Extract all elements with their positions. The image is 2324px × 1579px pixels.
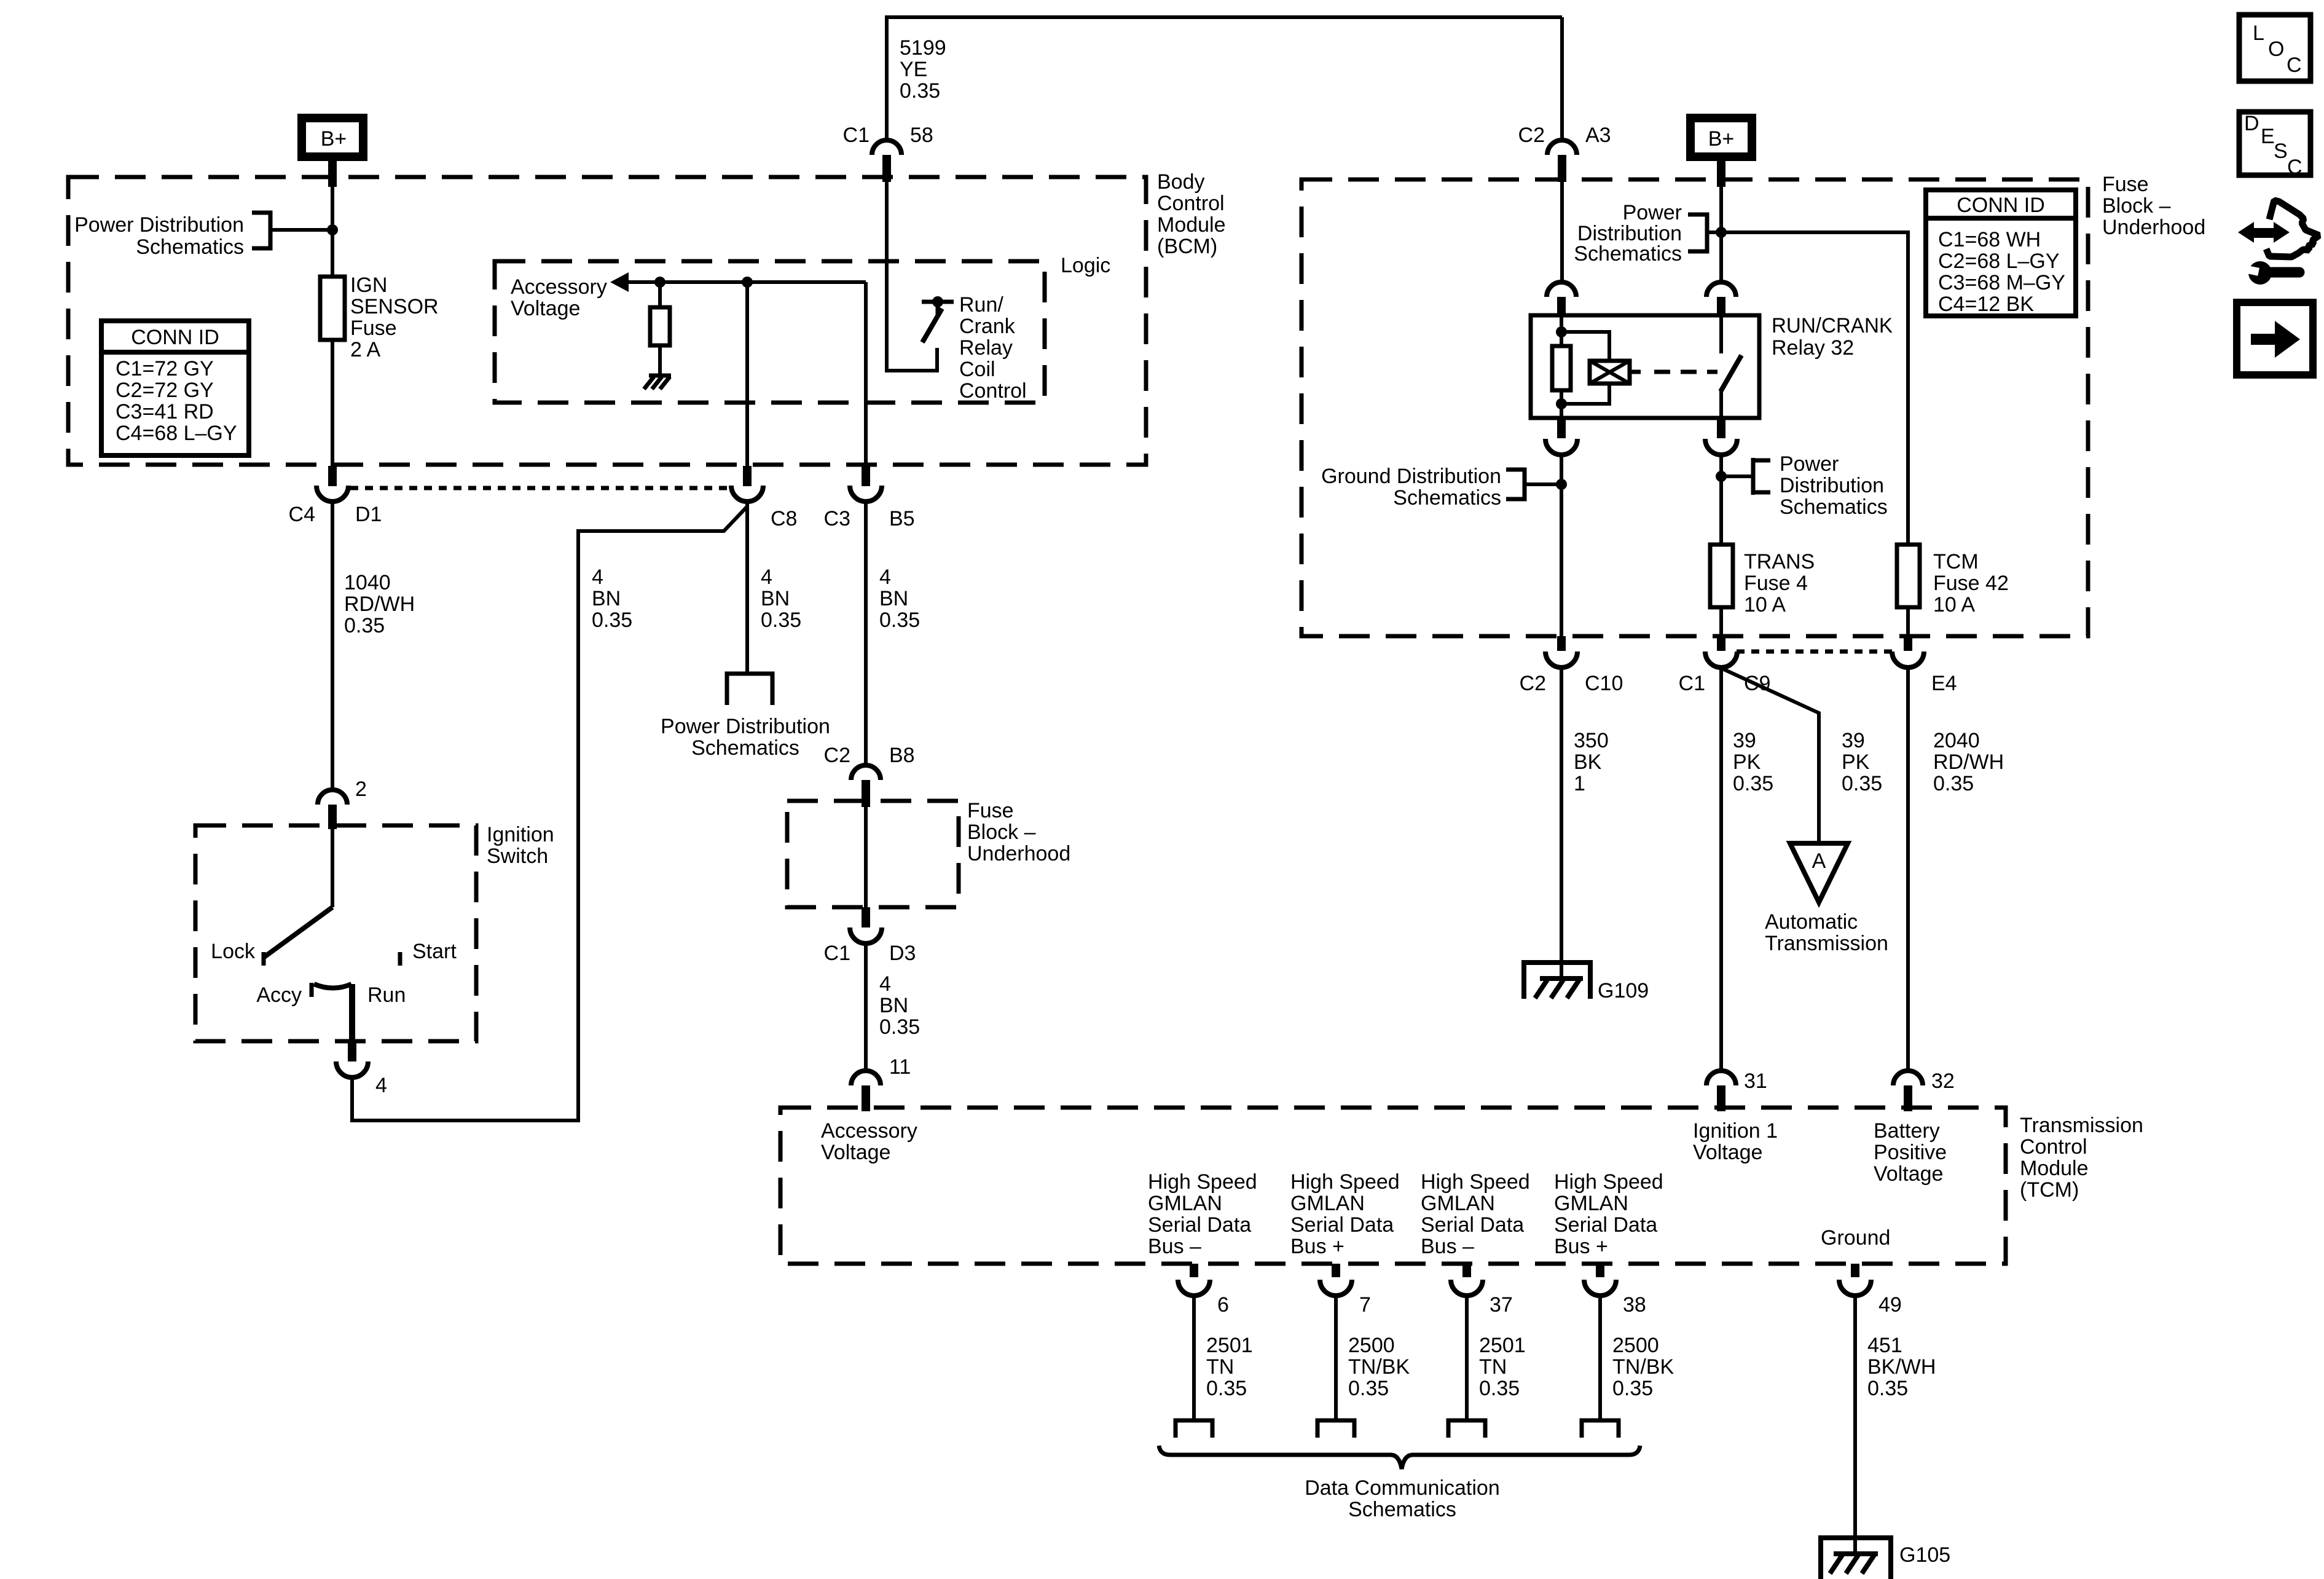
svg-text:10 A: 10 A	[1744, 593, 1786, 616]
svg-text:Power: Power	[1780, 452, 1839, 476]
terminal stub bus wire 6	[1176, 1420, 1212, 1438]
svg-text:O: O	[2268, 37, 2284, 61]
relay dashed actuation link	[1654, 370, 1717, 374]
connector C1/C9 at fuse block bottom	[1705, 636, 1737, 667]
svg-text:C8: C8	[771, 507, 797, 530]
svg-text:32: 32	[1931, 1069, 1955, 1093]
svg-text:C2=72 GY: C2=72 GY	[116, 379, 214, 402]
connector relay left top	[1547, 282, 1576, 317]
svg-text:BN: BN	[879, 994, 908, 1017]
relay resistor symbol	[1552, 346, 1571, 390]
wire resistor to ground	[658, 345, 662, 376]
terminal stub bus wire 37	[1448, 1420, 1485, 1438]
svg-text:Fuse: Fuse	[350, 317, 397, 340]
svg-text:Schematics: Schematics	[691, 736, 799, 760]
svg-text:B8: B8	[889, 744, 915, 767]
svg-text:(TCM): (TCM)	[2020, 1178, 2079, 1202]
CONN ID table (left, BCM)	[101, 321, 249, 455]
svg-text:C1: C1	[843, 124, 870, 147]
svg-text:4: 4	[761, 565, 772, 589]
svg-text:Automatic: Automatic	[1765, 910, 1858, 934]
svg-text:Relay 32: Relay 32	[1772, 336, 1854, 360]
wire 2040 RD/WH from E4 to TCM pin 32	[1906, 667, 1910, 1071]
svg-text:L: L	[2253, 22, 2264, 45]
wire from ignition pin 4 to BCM accessory line	[352, 506, 747, 1120]
svg-text:Accy: Accy	[256, 983, 302, 1007]
svg-text:0.35: 0.35	[1348, 1377, 1389, 1400]
svg-text:Switch: Switch	[487, 845, 548, 868]
svg-text:39: 39	[1733, 729, 1756, 752]
B+ power symbol box (left)	[302, 118, 363, 157]
arrowhead accessory voltage	[610, 272, 629, 292]
bracket for Power Distribution Schematics (lower right)	[1753, 458, 1770, 495]
svg-text:1: 1	[1574, 772, 1585, 795]
ignition switch dashed outline	[195, 825, 476, 1041]
connector-face dotted line C4 to C8	[350, 486, 732, 490]
wire 2500 TN/BK bus + (pin 38)	[1598, 1296, 1602, 1420]
svg-text:Start: Start	[412, 940, 457, 963]
brace data communication schematics	[1159, 1446, 1640, 1469]
svg-text:Serial Data: Serial Data	[1554, 1213, 1657, 1237]
wire 39 PK branch diagonal to automatic transmission	[1722, 669, 1819, 843]
wire 5199 YE top horizontal from BCM C1 to fuse block C2	[887, 15, 1562, 19]
TCM fuse 42 symbol	[1897, 545, 1920, 607]
svg-text:Fuse: Fuse	[2102, 173, 2149, 196]
svg-text:1040: 1040	[344, 571, 391, 594]
wire TRANS fuse to fuse block edge	[1719, 607, 1723, 637]
connector-face dotted line C9 to E4	[1737, 650, 1892, 654]
wire 350 BK from C10 to G109	[1560, 667, 1563, 977]
svg-text:0.35: 0.35	[1842, 772, 1882, 795]
svg-text:Bus –: Bus –	[1421, 1235, 1474, 1258]
node junction dot power distribution (lower right)	[1716, 471, 1727, 482]
svg-text:C2: C2	[1520, 672, 1546, 695]
connector C3/B5 at BCM bottom	[850, 466, 882, 502]
svg-text:Serial Data: Serial Data	[1148, 1213, 1251, 1237]
contact arc Accy to Run	[314, 984, 351, 988]
node junction dot relay coil bottom	[1556, 398, 1567, 409]
svg-text:Fuse 4: Fuse 4	[1744, 572, 1808, 595]
svg-text:Ground: Ground	[1821, 1226, 1890, 1250]
svg-text:Control: Control	[959, 379, 1027, 403]
relay coil parallel branch wire	[1561, 332, 1609, 404]
svg-text:GMLAN: GMLAN	[1421, 1192, 1495, 1215]
switch blade run/crank driver	[922, 309, 942, 342]
wire junction to TCM fuse leg horizontal	[1721, 232, 1908, 545]
bracket for Ground Distribution Schematics label	[1506, 470, 1525, 499]
wire B+ (right) down through fuse block	[1719, 160, 1723, 282]
svg-text:C9: C9	[1744, 672, 1770, 695]
wire BCM run/crank driver L-shape from pin 58	[887, 182, 937, 371]
svg-text:D: D	[2244, 112, 2259, 135]
wire through middle fuse block	[864, 806, 868, 907]
connector C1/58 at BCM top	[872, 140, 901, 182]
svg-text:Ground Distribution: Ground Distribution	[1321, 465, 1501, 488]
svg-text:Block –: Block –	[2102, 194, 2171, 218]
svg-text:Serial Data: Serial Data	[1421, 1213, 1524, 1237]
connector 4 at ignition switch bottom	[336, 1041, 368, 1077]
svg-text:B5: B5	[889, 507, 915, 530]
svg-text:BK/WH: BK/WH	[1867, 1355, 1936, 1379]
svg-text:2500: 2500	[1612, 1334, 1659, 1357]
ground chassis symbol in logic box	[644, 376, 671, 389]
svg-text:E: E	[2261, 125, 2275, 148]
svg-text:0.35: 0.35	[879, 1015, 920, 1039]
svg-text:B+: B+	[1708, 127, 1735, 151]
svg-text:A: A	[1812, 849, 1826, 873]
svg-text:0.35: 0.35	[1479, 1377, 1520, 1400]
svg-text:Voltage: Voltage	[1874, 1162, 1943, 1186]
svg-text:0.35: 0.35	[344, 614, 385, 637]
svg-text:C1=72 GY: C1=72 GY	[116, 357, 214, 380]
connector relay right top	[1706, 282, 1736, 317]
svg-text:0.35: 0.35	[1612, 1377, 1653, 1400]
contact bar run/crank coil control	[922, 300, 954, 304]
wire C2/A3 down to relay left connector	[1560, 182, 1564, 282]
wire junction to bracket (lower right)	[1721, 474, 1753, 478]
svg-text:38: 38	[1623, 1293, 1646, 1317]
svg-text:Ignition 1: Ignition 1	[1693, 1119, 1778, 1143]
svg-text:BN: BN	[592, 587, 621, 610]
svg-text:A3: A3	[1585, 124, 1611, 147]
svg-text:GMLAN: GMLAN	[1290, 1192, 1365, 1215]
svg-text:C2: C2	[1518, 124, 1545, 147]
svg-text:C3: C3	[824, 507, 850, 530]
svg-text:Logic: Logic	[1061, 254, 1110, 277]
svg-text:Control: Control	[1157, 192, 1225, 215]
connector C8 at BCM bottom	[731, 466, 763, 502]
svg-text:4: 4	[879, 972, 891, 996]
resistor in logic box	[650, 307, 670, 345]
wire B+ (left) down to BCM	[331, 160, 334, 466]
svg-text:5199: 5199	[900, 36, 946, 60]
ground symbol G105	[1821, 1538, 1891, 1579]
CONN ID table (right, fuse block)	[1926, 190, 2076, 316]
svg-text:RUN/CRANK: RUN/CRANK	[1772, 314, 1893, 337]
svg-text:Transmission: Transmission	[1765, 932, 1888, 955]
icon car with double arrow and wrench	[2238, 200, 2319, 285]
svg-text:58: 58	[910, 124, 933, 147]
svg-text:E4: E4	[1931, 672, 1957, 695]
svg-text:0.35: 0.35	[1933, 772, 1974, 795]
svg-text:Schematics: Schematics	[1574, 242, 1682, 266]
svg-text:Coil: Coil	[959, 358, 995, 381]
connector C2/C10 at fuse block bottom	[1545, 636, 1577, 667]
connector 11 at TCM top	[851, 1071, 881, 1111]
icon DESC box	[2239, 112, 2310, 179]
wire vertical into fuse block A3	[1560, 17, 1564, 140]
svg-text:G105: G105	[1899, 1543, 1950, 1567]
svg-text:C4=68 L–GY: C4=68 L–GY	[116, 422, 237, 445]
svg-text:451: 451	[1867, 1334, 1902, 1357]
node junction dot relay coil top	[1556, 326, 1567, 337]
ground symbol G109	[1524, 963, 1590, 999]
svg-text:SENSOR: SENSOR	[350, 295, 439, 318]
stub B+ left entry	[328, 161, 337, 187]
svg-text:Ignition: Ignition	[487, 823, 554, 846]
svg-text:Crank: Crank	[959, 315, 1016, 338]
svg-text:Distribution: Distribution	[1780, 474, 1884, 497]
svg-text:Body: Body	[1157, 170, 1205, 194]
terminal stub bus wire 38	[1582, 1420, 1619, 1438]
svg-text:C1: C1	[1679, 672, 1705, 695]
svg-text:(BCM): (BCM)	[1157, 235, 1217, 258]
svg-text:0.35: 0.35	[761, 608, 801, 632]
svg-text:Fuse: Fuse	[967, 799, 1014, 822]
svg-text:B+: B+	[321, 127, 347, 151]
svg-text:0.35: 0.35	[1733, 772, 1773, 795]
svg-text:C2: C2	[824, 744, 850, 767]
svg-text:6: 6	[1217, 1293, 1229, 1317]
svg-text:PK: PK	[1842, 750, 1870, 774]
connector E4 at fuse block bottom	[1892, 636, 1924, 667]
contact tick Accy	[310, 983, 314, 997]
relay left leg internal wire	[1560, 315, 1563, 418]
svg-text:Voltage: Voltage	[511, 297, 580, 320]
wire resistor branch upper	[658, 282, 662, 307]
relay coil stub to dashed link	[1630, 370, 1641, 374]
node junction dot resistor tap	[654, 277, 665, 288]
svg-text:S: S	[2274, 140, 2288, 163]
svg-text:RD/WH: RD/WH	[344, 593, 415, 616]
wire vertical into BCM pin 58	[885, 15, 889, 140]
wire B5 feed down from accessory line	[864, 282, 868, 466]
svg-text:C: C	[2287, 156, 2302, 179]
contact stub below dot	[936, 302, 940, 316]
node junction dot ground distribution	[1556, 479, 1567, 490]
svg-text:Power: Power	[1623, 201, 1682, 224]
svg-text:D1: D1	[355, 503, 382, 526]
connector C2/B8 at middle fuse block top	[851, 765, 881, 807]
svg-text:4: 4	[879, 565, 891, 589]
svg-text:Lock: Lock	[211, 940, 256, 963]
svg-text:7: 7	[1359, 1293, 1371, 1317]
wire branch to power distribution bracket (left)	[270, 228, 332, 232]
connector 32 at TCM top	[1893, 1071, 1923, 1111]
svg-text:4: 4	[592, 565, 603, 589]
svg-text:10 A: 10 A	[1933, 593, 1975, 616]
svg-text:BK: BK	[1574, 750, 1602, 774]
svg-text:C3=68 M–GY: C3=68 M–GY	[1938, 271, 2065, 294]
wire inside ignition switch from pin 2	[331, 823, 334, 907]
logic sub-box dashed outline inside BCM	[495, 261, 1045, 403]
wire Run contact down to pin 4	[349, 984, 355, 1042]
svg-text:Relay: Relay	[959, 336, 1013, 360]
module box TCM (Transmission Control Module) dashed outline	[780, 1108, 2006, 1264]
relay switch lower wire	[1719, 390, 1723, 418]
svg-text:Positive: Positive	[1874, 1141, 1947, 1164]
bracket for Power Distribution Schematics (top right)	[1688, 215, 1707, 251]
svg-text:C2=68 L–GY: C2=68 L–GY	[1938, 250, 2060, 273]
svg-text:Accessory: Accessory	[511, 275, 607, 299]
svg-text:Bus +: Bus +	[1554, 1235, 1608, 1258]
svg-text:TN/BK: TN/BK	[1612, 1355, 1674, 1379]
svg-text:C4: C4	[289, 503, 315, 526]
wire 1040 RD/WH ignition switch feed	[331, 502, 334, 790]
fuse block underhood (middle small) dashed outline	[787, 801, 959, 907]
relay RUN/CRANK 32 outline box	[1531, 315, 1759, 418]
svg-text:2500: 2500	[1348, 1334, 1395, 1357]
svg-text:Accessory: Accessory	[821, 1119, 917, 1143]
stub B+ right entry	[1717, 161, 1725, 187]
wire B5 from BCM to fuse block B8	[864, 502, 868, 763]
TRANS fuse 4 symbol	[1710, 545, 1733, 607]
svg-text:Voltage: Voltage	[821, 1141, 890, 1164]
svg-text:C4=12 BK: C4=12 BK	[1938, 293, 2034, 316]
svg-text:2501: 2501	[1206, 1334, 1253, 1357]
svg-text:Power Distribution: Power Distribution	[661, 715, 830, 738]
svg-text:Run/: Run/	[959, 293, 1003, 317]
contact tick Start	[398, 952, 402, 966]
node junction dot on B+ wire (left)	[327, 224, 338, 235]
contact dot run/crank coil control	[932, 296, 943, 307]
svg-text:TCM: TCM	[1933, 550, 1979, 573]
wire 451 BK/WH ground (pin 49)	[1853, 1296, 1857, 1554]
icon next-page arrow box	[2237, 302, 2313, 375]
contact tick Lock	[262, 952, 266, 966]
svg-text:High Speed: High Speed	[1421, 1170, 1530, 1194]
svg-text:TN: TN	[1479, 1355, 1507, 1379]
svg-text:Block –: Block –	[967, 821, 1036, 844]
connector 37 at TCM bottom	[1451, 1264, 1483, 1296]
svg-text:49: 49	[1878, 1293, 1902, 1317]
svg-text:2040: 2040	[1933, 729, 1980, 752]
relay switch blade	[1721, 355, 1741, 392]
svg-text:Schematics: Schematics	[136, 235, 244, 259]
IGN SENSOR fuse symbol	[320, 277, 345, 340]
node junction dot B+ right distribution	[1716, 227, 1727, 238]
svg-text:0.35: 0.35	[592, 608, 632, 632]
svg-text:39: 39	[1842, 729, 1865, 752]
svg-text:Schematics: Schematics	[1393, 486, 1501, 510]
svg-text:C1: C1	[824, 942, 850, 965]
B+ power symbol box (right)	[1690, 118, 1752, 157]
svg-text:GMLAN: GMLAN	[1554, 1192, 1628, 1215]
svg-text:0.35: 0.35	[900, 79, 940, 103]
svg-text:D3: D3	[889, 942, 916, 965]
connector 6 at TCM bottom	[1178, 1264, 1210, 1296]
svg-text:0.35: 0.35	[1206, 1377, 1247, 1400]
svg-text:2501: 2501	[1479, 1334, 1526, 1357]
svg-text:Bus +: Bus +	[1290, 1235, 1345, 1258]
wire 2500 TN/BK bus + (pin 7)	[1334, 1296, 1338, 1420]
svg-text:CONN ID: CONN ID	[131, 326, 219, 349]
wire accessory voltage line in logic box	[621, 280, 866, 284]
connector C4/D1 at BCM bottom	[316, 466, 348, 502]
wire relay right output down	[1719, 455, 1723, 545]
svg-text:GMLAN: GMLAN	[1148, 1192, 1222, 1215]
connector relay right bottom	[1705, 418, 1737, 455]
svg-text:C: C	[2287, 53, 2302, 77]
svg-text:31: 31	[1744, 1069, 1767, 1093]
svg-text:IGN: IGN	[350, 274, 387, 297]
connector 2 at ignition switch top	[318, 790, 347, 829]
wire 2501 TN bus - (pin 37)	[1465, 1296, 1469, 1420]
wire 39 PK from C9 to TCM pin 31	[1719, 667, 1723, 1071]
relay switch upper wire	[1719, 315, 1723, 353]
svg-text:Module: Module	[2020, 1157, 2089, 1180]
svg-text:Transmission: Transmission	[2020, 1114, 2143, 1137]
connector 49 at TCM bottom	[1839, 1264, 1871, 1296]
svg-text:C10: C10	[1585, 672, 1623, 695]
svg-text:0.35: 0.35	[1867, 1377, 1908, 1400]
wire 4 BN from D3 to TCM pin 11	[864, 945, 868, 1071]
icon LOC box	[2239, 15, 2310, 81]
svg-text:37: 37	[1490, 1293, 1513, 1317]
terminal stub bus wire 7	[1317, 1420, 1354, 1438]
svg-text:Bus –: Bus –	[1148, 1235, 1201, 1258]
svg-text:Schematics: Schematics	[1348, 1498, 1456, 1521]
svg-text:BN: BN	[761, 587, 790, 610]
svg-text:YE: YE	[900, 58, 927, 81]
connector relay left bottom	[1545, 418, 1577, 455]
svg-text:Battery: Battery	[1874, 1119, 1940, 1143]
svg-text:TN: TN	[1206, 1355, 1234, 1379]
wire bracket to junction (ground distribution)	[1525, 482, 1561, 486]
svg-text:Fuse 42: Fuse 42	[1933, 572, 2009, 595]
svg-text:Data Communication: Data Communication	[1305, 1476, 1499, 1500]
svg-text:TN/BK: TN/BK	[1348, 1355, 1410, 1379]
fuse block underhood (right) dashed outline	[1301, 179, 2088, 636]
svg-text:G109: G109	[1598, 979, 1649, 1002]
svg-text:Power Distribution: Power Distribution	[74, 213, 244, 237]
svg-text:0.35: 0.35	[879, 608, 920, 632]
wire C8 down to power distribution stub	[745, 502, 749, 674]
svg-text:High Speed: High Speed	[1554, 1170, 1663, 1194]
connector 7 at TCM bottom	[1320, 1264, 1352, 1296]
triangle symbol A automatic transmission	[1790, 843, 1848, 902]
svg-text:Serial Data: Serial Data	[1290, 1213, 1394, 1237]
svg-text:11: 11	[889, 1055, 911, 1079]
svg-text:4: 4	[375, 1074, 387, 1097]
connector C2/A3 at fuse block top	[1547, 140, 1577, 182]
svg-text:BN: BN	[879, 587, 908, 610]
svg-text:Schematics: Schematics	[1780, 495, 1888, 519]
svg-text:High Speed: High Speed	[1290, 1170, 1400, 1194]
switch blade ignition (to Lock)	[264, 907, 332, 957]
svg-text:High Speed: High Speed	[1148, 1170, 1257, 1194]
svg-text:Underhood: Underhood	[2102, 216, 2205, 239]
relay coil box-X symbol	[1590, 361, 1630, 384]
wire 2501 TN bus - (pin 6)	[1192, 1296, 1196, 1420]
wire bracket to junction (top right)	[1707, 230, 1721, 234]
connector 38 at TCM bottom	[1584, 1264, 1616, 1296]
svg-text:RD/WH: RD/WH	[1933, 750, 2004, 774]
svg-text:PK: PK	[1733, 750, 1761, 774]
svg-text:2 A: 2 A	[350, 338, 380, 361]
node junction dot C8 tap	[742, 277, 753, 288]
svg-text:Voltage: Voltage	[1693, 1141, 1762, 1164]
svg-text:Control: Control	[2020, 1135, 2087, 1159]
svg-text:CONN ID: CONN ID	[1957, 194, 2045, 217]
svg-text:TRANS: TRANS	[1744, 550, 1815, 573]
module box BCM (Body Control Module) dashed outline	[68, 177, 1146, 465]
wire relay left output to ground distribution	[1560, 455, 1563, 636]
connector C1/D3 at middle fuse block bottom	[850, 907, 882, 943]
svg-text:Run: Run	[367, 983, 406, 1007]
wire C8 feed down from accessory line	[745, 282, 749, 466]
svg-text:C1=68 WH: C1=68 WH	[1938, 228, 2041, 251]
bracket for Power Distribution Schematics label (left)	[252, 213, 270, 248]
connector 31 at TCM top	[1706, 1071, 1736, 1111]
svg-text:2: 2	[355, 778, 367, 801]
svg-text:Module: Module	[1157, 213, 1226, 237]
wire TCM fuse to fuse block edge	[1906, 607, 1910, 637]
svg-text:C3=41 RD: C3=41 RD	[116, 400, 214, 423]
svg-text:350: 350	[1574, 729, 1609, 752]
terminal stub under C8 (power distribution schematics)	[727, 674, 772, 705]
svg-text:Underhood: Underhood	[967, 842, 1070, 865]
